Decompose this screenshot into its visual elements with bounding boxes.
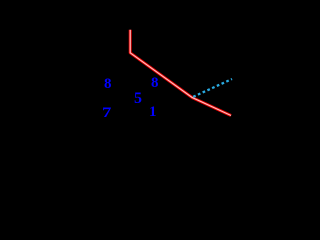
label 5 (middle) bbox=[134, 91, 142, 107]
cyan dashed extrapolation line bbox=[193, 79, 232, 97]
plot curves svg bbox=[0, 0, 245, 190]
red curve bright core bbox=[130, 30, 231, 116]
label 8 (upper right) bbox=[151, 76, 159, 91]
label 8 (upper left) bbox=[104, 77, 112, 92]
label 1 (lower right) bbox=[149, 105, 157, 120]
red curve (vertical drop, steep slope, shallow slope) bbox=[130, 30, 231, 116]
label 7 (lower left) bbox=[102, 106, 111, 121]
